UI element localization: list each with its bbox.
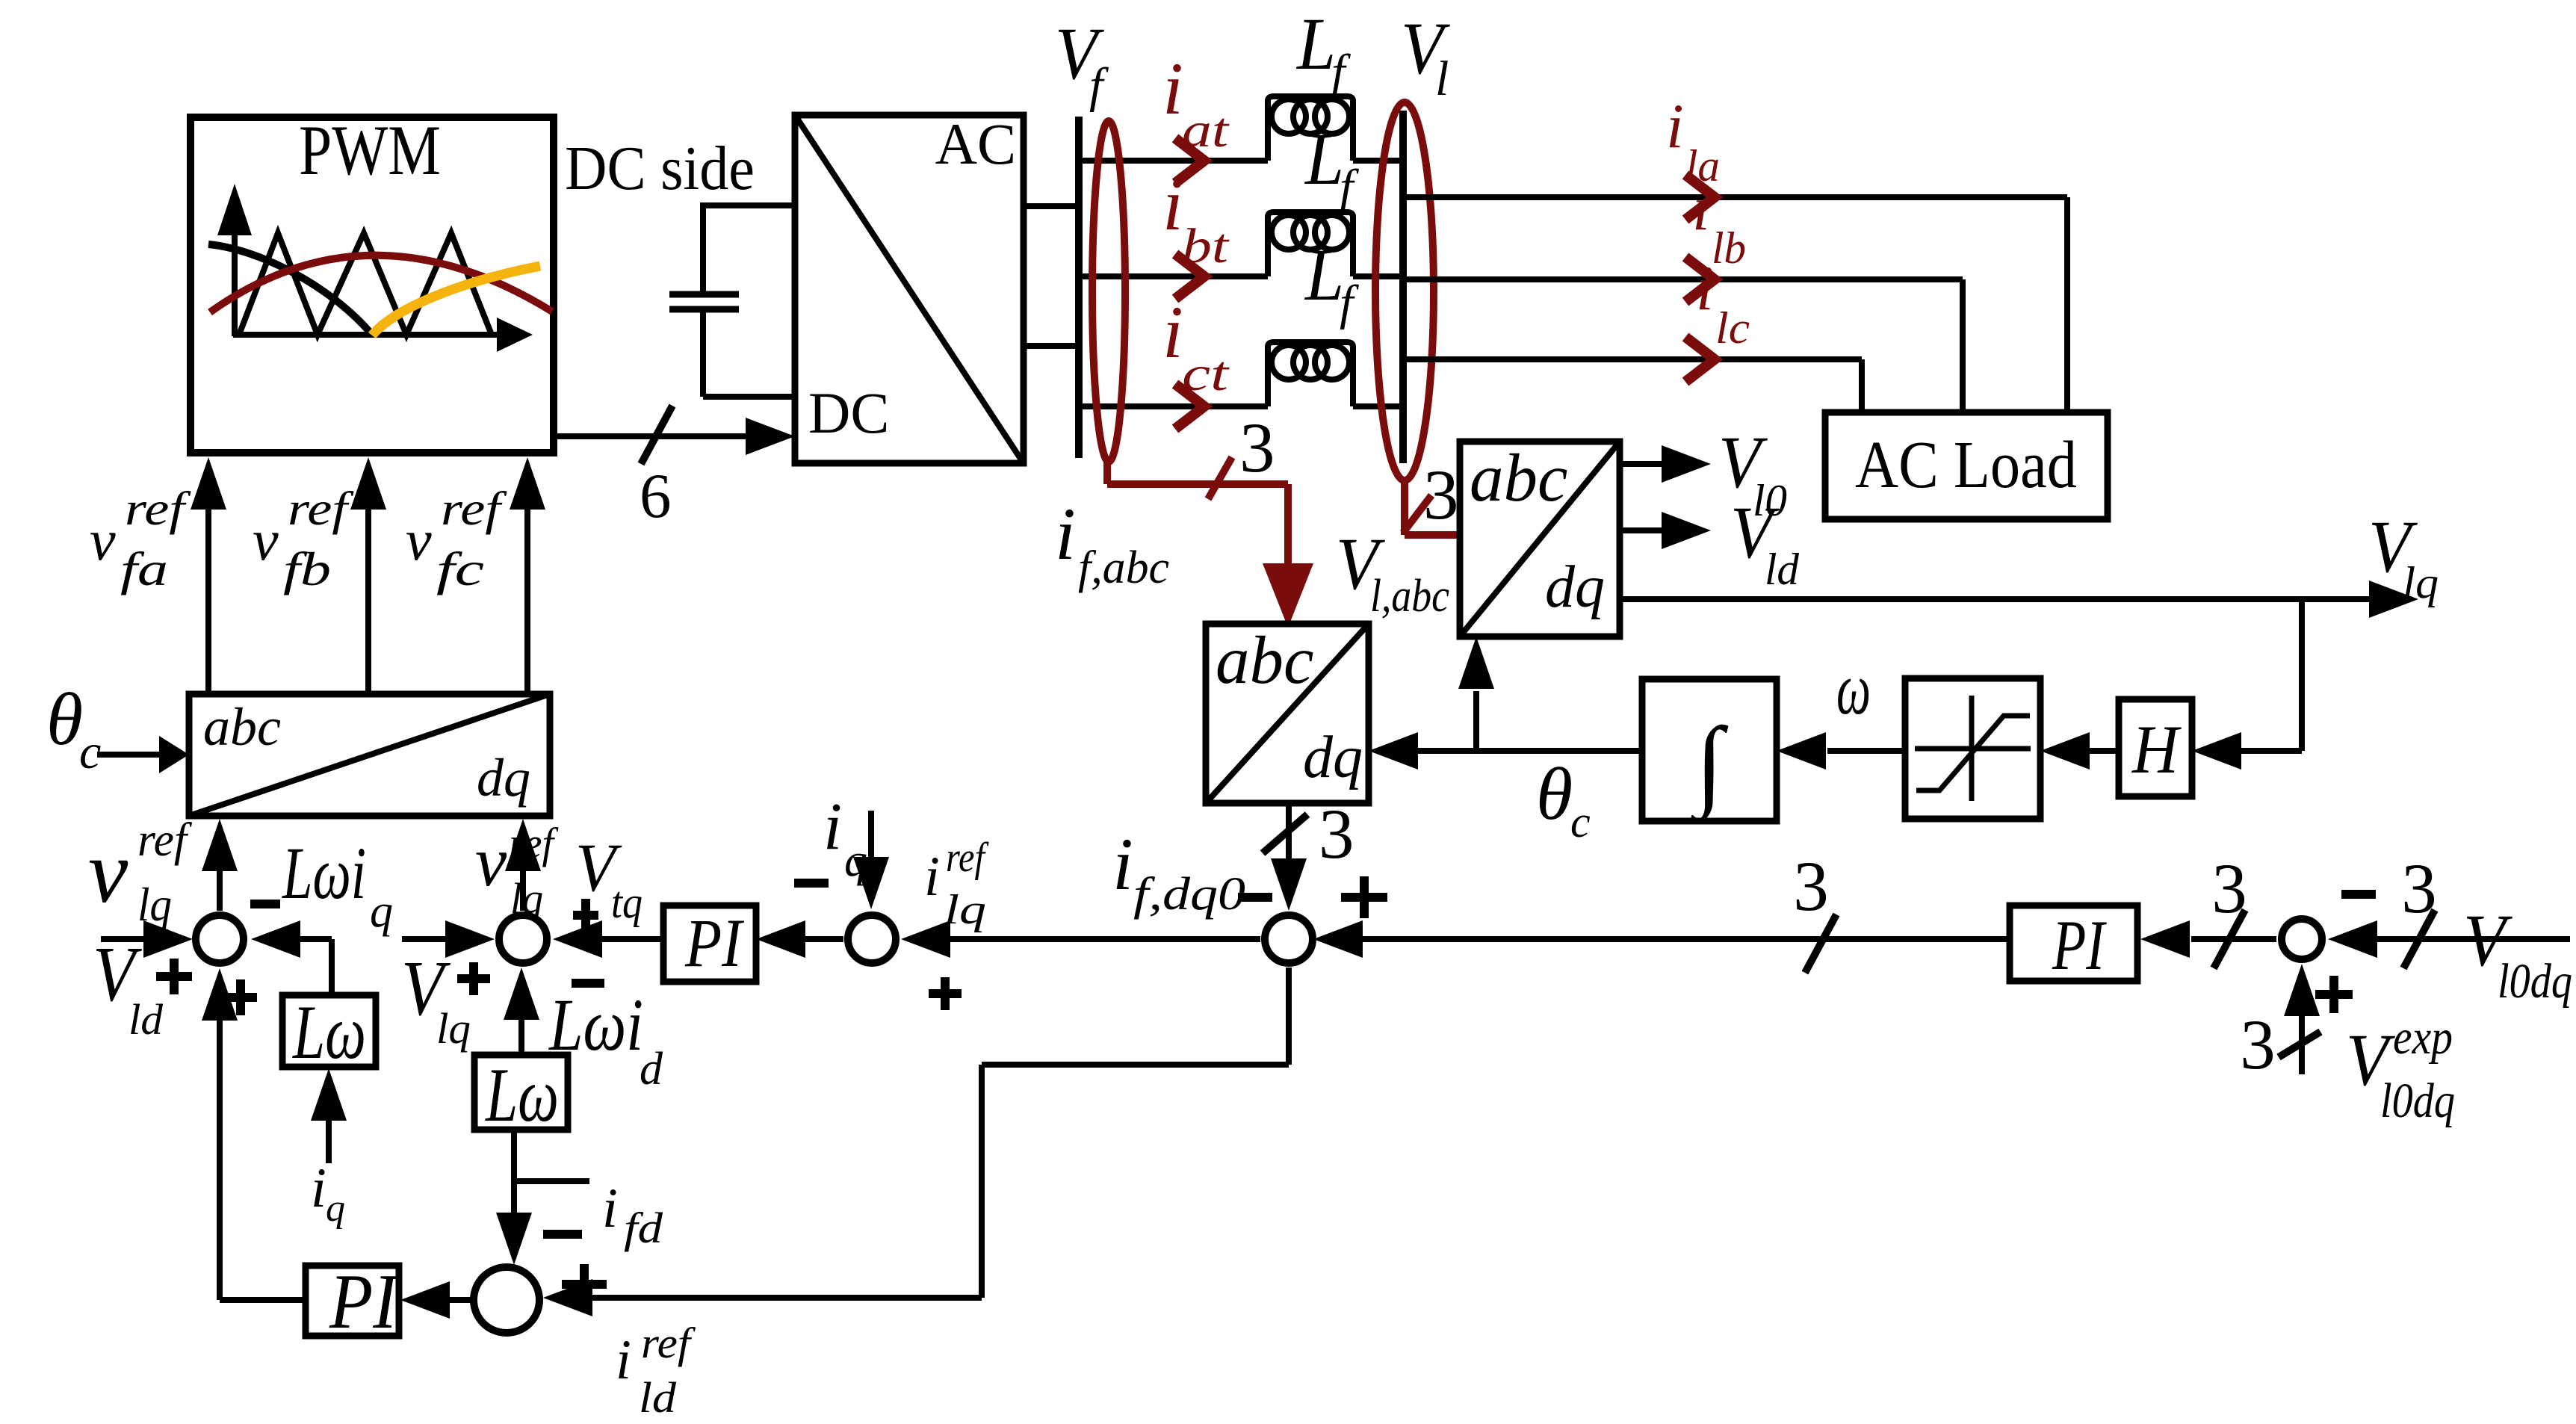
block AC Load: [1825, 412, 2108, 519]
svg-text:dq: dq: [1303, 725, 1363, 790]
svg-text:i: i: [1162, 47, 1183, 130]
label plus S1 bottom: [224, 979, 257, 1015]
svg-text:DC side: DC side: [565, 134, 755, 203]
svg-text:abc: abc: [203, 697, 281, 757]
label 6: [640, 461, 672, 531]
summing junction S1: [196, 915, 244, 963]
label plus S1 left: [156, 959, 192, 994]
svg-text:3: 3: [2401, 849, 2437, 928]
label dq lower: [1303, 725, 1363, 790]
svg-text:lq: lq: [510, 874, 543, 923]
wire load phase c: [1403, 359, 1862, 412]
svg-text:PI: PI: [684, 905, 745, 981]
label minus i_f,dq0: [1238, 893, 1272, 902]
label PI 1: [684, 905, 745, 981]
label v_fc_ref: [406, 482, 508, 595]
wire H to saturation: [2040, 732, 2119, 770]
svg-text:ref: ref: [946, 835, 989, 881]
wire theta_c up branch: [1458, 637, 1494, 751]
wire saturation to integrator: [1777, 732, 1905, 770]
svg-text:θ: θ: [46, 678, 83, 761]
label v_lq_ref left: [88, 813, 193, 931]
label dq flat: [477, 748, 530, 808]
summing junction S6: [474, 1267, 539, 1333]
summing junction S2: [499, 915, 547, 963]
svg-text:Lωi: Lωi: [282, 832, 366, 914]
label i_fd: [602, 1177, 663, 1252]
label abc lower: [1216, 622, 1313, 698]
label V_tq: [575, 829, 643, 927]
block Lomega 2: [474, 1055, 568, 1130]
wire phase c: [1079, 403, 1403, 409]
svg-text:3: 3: [1423, 455, 1459, 534]
label v_fb_ref: [253, 482, 355, 595]
wire v_fc_ref: [510, 457, 545, 694]
label theta_c: [1536, 752, 1591, 846]
svg-text:d: d: [640, 1044, 663, 1095]
label 3 i_f,abc: [1239, 408, 1275, 487]
label Lomega i_d: [548, 983, 663, 1095]
summing junction S3: [848, 915, 896, 963]
svg-text:lb: lb: [1712, 223, 1746, 273]
label PI 3: [329, 1257, 400, 1345]
slash i_f,abc: [1208, 457, 1232, 499]
wire V_ld input S1: [101, 920, 193, 958]
svg-text:f,abc: f,abc: [1078, 542, 1169, 593]
wire i_f,dq0: [1271, 803, 1307, 911]
svg-text:PWM: PWM: [299, 111, 441, 190]
svg-text:Lω: Lω: [484, 1053, 559, 1138]
label dq upper: [1545, 554, 1605, 620]
node Vf bus: [1075, 117, 1083, 458]
PWM waveform horizontal axis: [233, 318, 533, 352]
svg-text:PI: PI: [2052, 906, 2107, 985]
label V_l0dq: [2463, 899, 2572, 1009]
svg-text:i: i: [1666, 91, 1684, 161]
wire PI2 to S4: [1313, 920, 2010, 958]
wire S6 to PI3: [400, 1281, 473, 1319]
wire theta_c input: [97, 736, 189, 773]
wire V_lq branch down: [2192, 599, 2302, 770]
svg-text:dq: dq: [477, 748, 530, 808]
svg-text:ld: ld: [1765, 545, 1800, 594]
slash V_l0dq_exp: [2279, 1032, 2320, 1057]
svg-text:i: i: [311, 1157, 326, 1219]
svg-text:AC Load: AC Load: [1855, 428, 2077, 502]
block PI 3: [306, 1266, 399, 1336]
label plus S2 right: [573, 899, 598, 932]
wire i_fd stub: [514, 1178, 589, 1184]
svg-text:ref: ref: [641, 1319, 696, 1367]
svg-text:v: v: [406, 507, 432, 572]
wire Lw2 to S2: [504, 968, 539, 1055]
svg-text:q: q: [370, 886, 393, 937]
label i_at: [1162, 47, 1230, 158]
inductor Lf phase a: [1268, 96, 1353, 161]
wire load phase b: [1403, 279, 1963, 412]
capacitor C1: [669, 294, 739, 309]
label i_bt: [1162, 163, 1230, 273]
wire V_l,abc: [1405, 478, 1460, 535]
svg-text:6: 6: [640, 461, 672, 531]
inductor Lf phase b: [1268, 212, 1353, 276]
block PWM converter: [191, 117, 554, 453]
summing junction S5: [2282, 919, 2322, 959]
svg-text:l0dq: l0dq: [2498, 954, 2572, 1009]
slash gate bus: [641, 406, 672, 464]
label plus S2 left: [457, 962, 490, 995]
wire inverter to Vf bus b: [1024, 343, 1079, 349]
label PWM: [299, 111, 441, 190]
svg-text:i: i: [823, 790, 842, 864]
PWM reference curve black: [208, 244, 372, 335]
svg-text:3: 3: [1239, 408, 1275, 487]
svg-text:abc: abc: [1470, 440, 1567, 516]
svg-text:l: l: [1435, 52, 1449, 106]
label minus S1 right: [250, 900, 280, 908]
svg-text:3: 3: [2211, 849, 2247, 928]
label minus S6 top: [543, 1230, 582, 1239]
svg-text:fd: fd: [624, 1204, 663, 1252]
svg-text:i: i: [924, 846, 940, 908]
svg-text:q: q: [326, 1187, 345, 1230]
svg-text:f,dq0: f,dq0: [1133, 869, 1245, 920]
saturation curve: [1916, 716, 2030, 790]
label V_ld S1: [93, 930, 164, 1044]
current arrow i_at: [1175, 138, 1204, 183]
svg-text:i: i: [1692, 173, 1710, 244]
svg-text:fc: fc: [436, 542, 484, 595]
svg-text:dq: dq: [1545, 554, 1605, 620]
svg-text:i: i: [1112, 823, 1133, 906]
wire S4 to S6: [543, 968, 1289, 1316]
block PI 1: [663, 906, 756, 982]
label AC Load: [1855, 428, 2077, 502]
label Lomega 2: [484, 1053, 559, 1138]
block abc-dq voltage: [1460, 442, 1620, 637]
label i_ld_ref: [616, 1319, 696, 1422]
svg-text:ref: ref: [125, 482, 192, 535]
svg-text:ld: ld: [129, 995, 164, 1044]
label Vf: [1055, 12, 1109, 113]
label Lf b: [1304, 117, 1359, 214]
label Lf c: [1304, 233, 1359, 330]
label plus S3 right: [929, 977, 962, 1010]
svg-text:at: at: [1182, 103, 1230, 158]
wire phase a: [1079, 158, 1403, 164]
svg-text:i: i: [1162, 291, 1183, 374]
wire inverter to Vf bus a: [1024, 203, 1079, 209]
svg-text:i: i: [602, 1177, 618, 1239]
PWM reference curve yellow: [372, 266, 540, 335]
svg-text:ld: ld: [639, 1373, 677, 1422]
wire load phase a: [1403, 197, 2067, 412]
wire S1 up: [202, 819, 238, 911]
svg-text:c: c: [79, 725, 101, 779]
label H: [2131, 711, 2182, 787]
label i_lc: [1696, 253, 1750, 353]
label i_f,dq0: [1112, 823, 1245, 920]
label omega: [1836, 647, 1871, 730]
block Lomega 1: [282, 995, 376, 1067]
label V_l0dq_exp: [2346, 1010, 2455, 1128]
block abc-dq modulation: [189, 694, 550, 816]
label integral: [1690, 708, 1729, 824]
label abc flat: [203, 697, 281, 757]
svg-text:L: L: [1304, 233, 1344, 316]
svg-text:3: 3: [1319, 794, 1354, 873]
svg-text:l,abc: l,abc: [1370, 571, 1449, 622]
block saturation: [1905, 678, 2040, 819]
label minus S3 top: [794, 879, 829, 888]
svg-text:v: v: [475, 822, 507, 901]
wire S3 to PI1: [756, 920, 843, 958]
svg-text:AC: AC: [935, 111, 1016, 176]
svg-text:fb: fb: [283, 542, 331, 595]
label Lomega i_q: [282, 832, 393, 937]
current arrow i_la: [1685, 175, 1715, 220]
svg-text:l0dq: l0dq: [2380, 1074, 2455, 1128]
label i_la: [1666, 91, 1720, 191]
svg-text:Lωi: Lωi: [548, 983, 643, 1066]
label V_lq: [2368, 505, 2439, 607]
svg-text:i: i: [616, 1329, 631, 1391]
block H: [2119, 699, 2192, 796]
label theta_c input: [46, 678, 101, 779]
svg-text:ref: ref: [441, 482, 508, 535]
svg-text:abc: abc: [1216, 622, 1313, 698]
current arrow i_ct: [1175, 384, 1204, 429]
label V_l0: [1718, 421, 1787, 525]
svg-text:c: c: [1570, 797, 1591, 846]
PWM reference curve dark red: [210, 256, 552, 312]
svg-text:θ: θ: [1536, 752, 1573, 835]
label DC side: [565, 134, 755, 203]
svg-text:v: v: [88, 822, 129, 921]
label Lomega 1: [291, 990, 366, 1075]
label v_fa_ref: [90, 482, 192, 595]
label Lf a: [1295, 2, 1351, 99]
label i_ct: [1162, 291, 1230, 401]
svg-text:v: v: [253, 507, 279, 572]
wire V_lq: [1618, 581, 2418, 618]
wire V_l0dq input: [2328, 920, 2570, 958]
svg-text:3: 3: [2240, 1005, 2276, 1084]
label i_q S3: [823, 790, 867, 886]
svg-text:q: q: [844, 835, 867, 886]
wire phase b: [1079, 273, 1403, 279]
label V_lq S2: [401, 944, 471, 1053]
slash V_l0dq: [2403, 910, 2435, 968]
wire PI1 to S2: [553, 920, 663, 958]
label minus S5: [2341, 890, 2376, 899]
wire Lw1 to S1: [251, 920, 332, 995]
block inverter DC-AC: [795, 115, 1024, 463]
label 3 V_l0dq_exp: [2240, 1005, 2276, 1084]
svg-text:lq: lq: [2403, 558, 2439, 607]
voltage sensor ellipse: [1375, 102, 1434, 480]
svg-text:lq: lq: [944, 887, 986, 933]
svg-text:bt: bt: [1182, 219, 1230, 273]
current arrow i_lb: [1685, 257, 1715, 302]
svg-text:L: L: [1295, 2, 1336, 85]
svg-text:v: v: [90, 507, 116, 572]
node Vl bus: [1399, 111, 1407, 463]
svg-text:ct: ct: [1182, 347, 1230, 401]
label V_ld: [1730, 491, 1800, 594]
label V_l,abc: [1336, 522, 1449, 622]
svg-text:Lω: Lω: [291, 990, 366, 1075]
svg-text:H: H: [2131, 711, 2182, 787]
svg-text:lq: lq: [436, 1004, 471, 1053]
svg-text:i: i: [1162, 163, 1183, 246]
current sensor ellipse: [1092, 121, 1125, 462]
svg-text:tq: tq: [611, 878, 643, 927]
wire V_ld out: [1620, 512, 1711, 549]
wire V_l0 out: [1620, 445, 1711, 483]
svg-text:L: L: [1304, 117, 1344, 200]
svg-text:ref: ref: [509, 819, 559, 867]
inductor Lf phase c: [1268, 342, 1353, 406]
label PI 2: [2052, 906, 2107, 985]
label 3 S5 out: [2211, 849, 2247, 928]
label i_lb: [1692, 173, 1746, 273]
svg-text:3: 3: [1793, 846, 1829, 926]
label v_lq_ref right: [475, 819, 559, 923]
saturation axes: [1915, 696, 2031, 801]
wire S4 to S3: [901, 920, 1260, 958]
wire capacitor bottom: [703, 309, 795, 397]
wire v_fb_ref: [350, 457, 386, 694]
label Vl: [1401, 7, 1450, 106]
summing junction S4: [1265, 915, 1313, 963]
PWM waveform vertical axis: [217, 184, 252, 336]
svg-text:lq: lq: [137, 878, 172, 931]
wire i_q to S3: [853, 811, 889, 909]
current arrow i_bt: [1175, 254, 1204, 299]
svg-text:PI: PI: [329, 1257, 400, 1345]
svg-text:i: i: [1696, 253, 1714, 324]
label abc upper: [1470, 440, 1567, 516]
wire i_f,abc: [1107, 459, 1313, 628]
svg-text:lc: lc: [1715, 303, 1750, 353]
wire v_fa_ref: [191, 457, 226, 694]
label plus i_f,dq0: [1341, 876, 1387, 918]
current arrow i_lc: [1685, 337, 1715, 382]
label plus S6 right: [562, 1264, 607, 1304]
label 3 V_l0dq: [2401, 849, 2437, 928]
label i_lq_ref: [924, 835, 989, 933]
PWM carrier triangle wave: [239, 233, 492, 335]
svg-text:∫: ∫: [1690, 708, 1729, 824]
wire theta_c: [1369, 732, 1642, 770]
wire V_lq input S2: [402, 920, 495, 958]
wire V_l0dq_exp input: [2284, 964, 2320, 1074]
block PI 2: [2010, 906, 2137, 981]
wire PWM gate signals: [554, 418, 795, 455]
label i_f,abc: [1055, 492, 1169, 593]
label 3 V_l,abc: [1423, 455, 1459, 534]
svg-text:fa: fa: [120, 542, 168, 595]
svg-text:exp: exp: [2393, 1010, 2453, 1065]
wire PI3 to S1: [202, 968, 306, 1300]
wire i_q to Lw1: [311, 1068, 347, 1163]
wire capacitor top: [703, 202, 795, 294]
slash V_l,abc: [1403, 495, 1431, 533]
wire S5 to PI2: [2140, 920, 2276, 958]
block abc-dq current: [1206, 624, 1369, 803]
block integrator: [1642, 679, 1777, 821]
wire S2 up: [505, 819, 541, 911]
svg-text:ω: ω: [1836, 647, 1871, 730]
label 3 S4 input: [1793, 846, 1829, 926]
svg-text:ref: ref: [288, 482, 355, 535]
label DC: [808, 380, 889, 445]
label i_q Lw1: [311, 1157, 345, 1230]
slash S4 input: [1805, 914, 1836, 973]
svg-text:ref: ref: [137, 813, 193, 866]
slash S5 out: [2214, 910, 2245, 968]
label AC: [935, 111, 1016, 176]
svg-text:i: i: [1055, 492, 1076, 575]
wire Lw2 to S6: [496, 1130, 532, 1265]
label plus S5 bottom: [2315, 976, 2353, 1013]
label 3 i_f,dq0: [1319, 794, 1354, 873]
svg-text:DC: DC: [808, 380, 889, 445]
slash i_f,dq0: [1263, 814, 1307, 853]
